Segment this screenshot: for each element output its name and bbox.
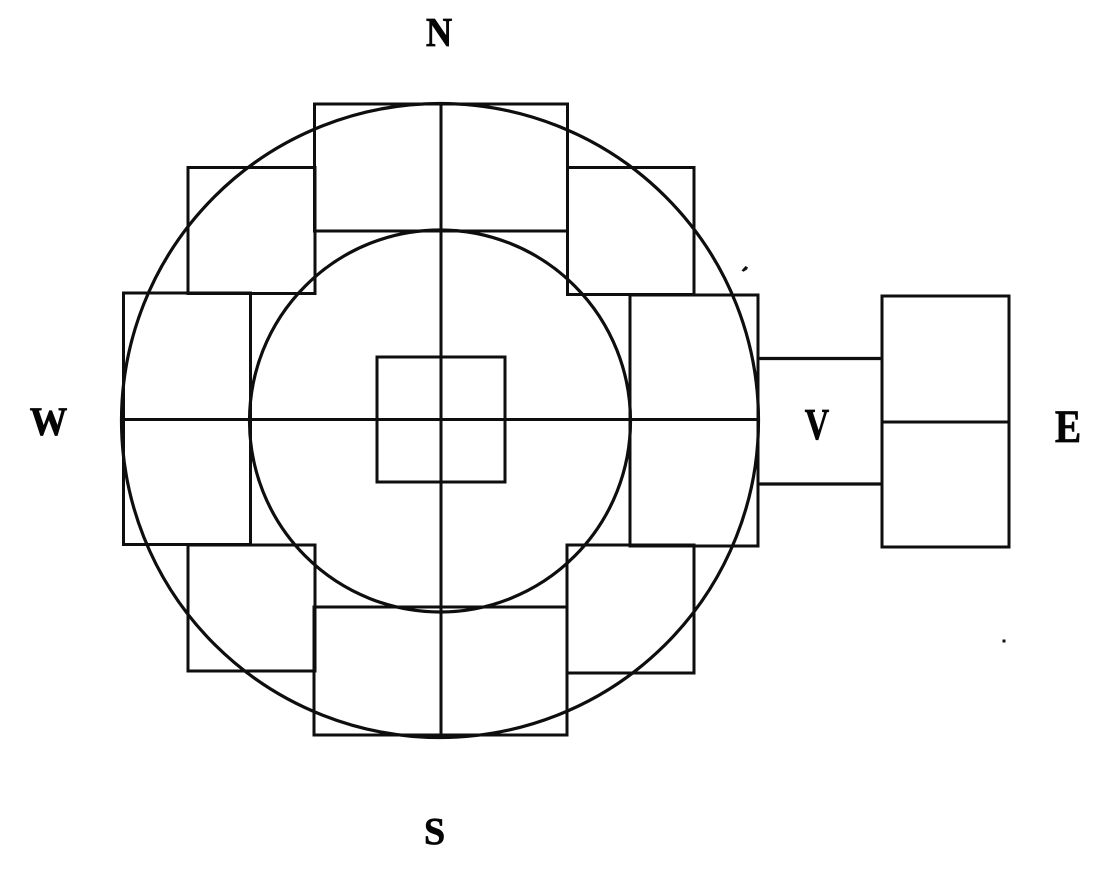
svg-text:W: W	[30, 400, 68, 444]
svg-text:N: N	[426, 10, 452, 56]
svg-text:S: S	[424, 811, 445, 853]
svg-text:E: E	[1055, 401, 1081, 453]
svg-text:V: V	[805, 401, 829, 449]
